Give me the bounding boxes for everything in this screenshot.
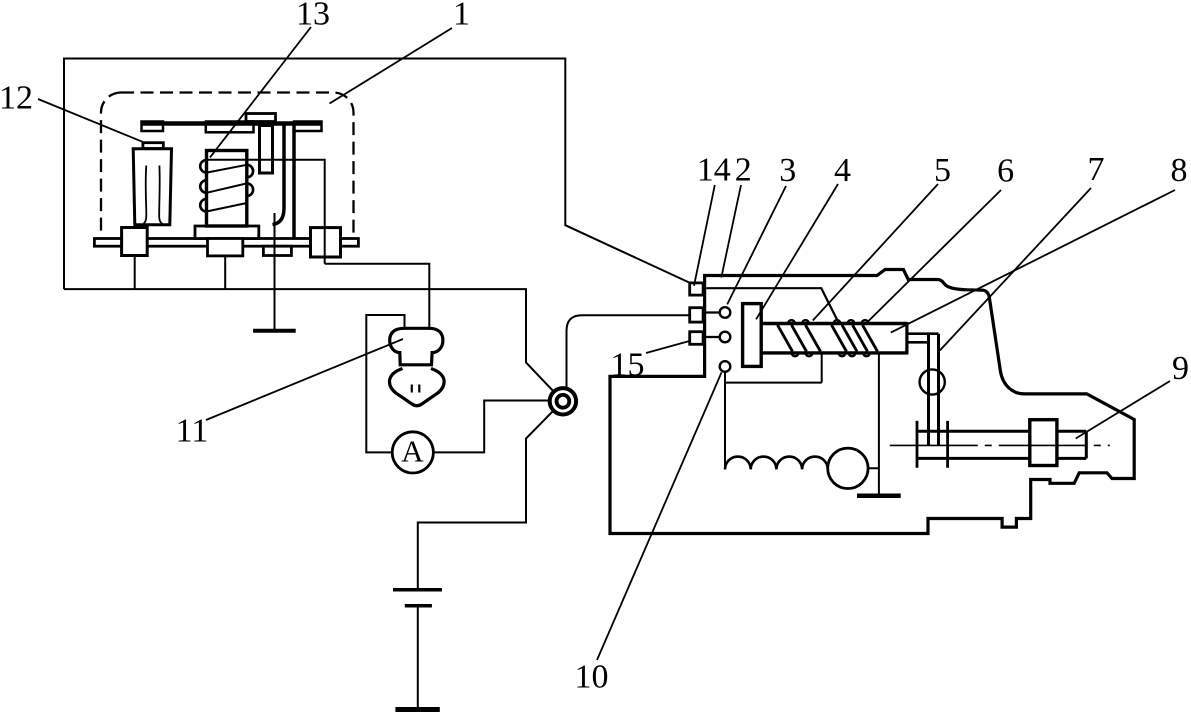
svg-text:3: 3	[779, 152, 796, 189]
spring top loops	[788, 320, 868, 323]
relay base plate	[94, 239, 358, 247]
leader line 1	[330, 28, 453, 104]
wire: bottom bus from relay pins to node	[64, 289, 554, 392]
leader line 12	[38, 99, 143, 142]
shift lever 8	[929, 334, 939, 446]
plunger rod top	[762, 322, 907, 325]
wire: ammeter to node	[433, 401, 550, 453]
relay ground wire	[274, 213, 276, 329]
contact (middle)	[720, 332, 731, 343]
base right mounting tab	[311, 228, 341, 257]
leader line 7	[940, 188, 1091, 351]
wire: node to terminal 2	[567, 315, 690, 389]
terminal stubs	[703, 313, 720, 338]
collar plates	[917, 421, 948, 468]
svg-text:A: A	[401, 434, 424, 469]
svg-text:6: 6	[997, 153, 1014, 190]
svg-text:12: 12	[0, 80, 33, 117]
lever pivot	[920, 369, 945, 394]
drive shaft	[917, 431, 1030, 458]
coil turns left loops	[200, 160, 206, 212]
base center block	[208, 239, 243, 256]
terminal 15	[690, 332, 703, 345]
battery plates	[393, 588, 442, 592]
yoke top tab	[246, 114, 276, 122]
ignition switch 11 cap	[390, 328, 443, 365]
relay ground symbol	[253, 329, 296, 333]
leader line 8	[891, 190, 1175, 333]
leader line 3	[727, 186, 786, 304]
base left mounting tab	[122, 228, 148, 256]
wire: relay coil to switch 11 (lower run)	[325, 264, 430, 329]
motor ground bar	[857, 494, 901, 499]
contact plate 4	[743, 304, 762, 367]
svg-text:4: 4	[834, 152, 851, 189]
nut block 9	[1030, 420, 1057, 466]
leader line 6	[866, 190, 1001, 324]
yoke middle lip	[206, 122, 254, 133]
wire: switch 11 left lead to ammeter	[366, 315, 404, 452]
svg-text:14: 14	[697, 152, 731, 189]
return spring 5 strokes	[778, 325, 878, 352]
wire: contact 10 down	[724, 372, 726, 470]
contact pillar 12 body	[133, 149, 171, 225]
link 7 connector	[907, 334, 939, 343]
leader line 13	[210, 27, 311, 157]
svg-text:5: 5	[934, 152, 951, 189]
svg-text:13: 13	[296, 0, 330, 33]
terminal 14	[690, 283, 703, 295]
battery to ground wire	[417, 606, 419, 708]
motor lead to ground	[868, 352, 879, 494]
armature 13 stem	[273, 126, 285, 225]
spring bottom loops	[792, 353, 870, 356]
coil turns right loops	[247, 165, 253, 196]
relay cover 1 (dashed enclosure)	[101, 93, 354, 238]
svg-text:10: 10	[575, 659, 609, 696]
leader line 15	[646, 341, 690, 353]
contact 3	[720, 307, 731, 318]
svg-text:11: 11	[176, 413, 209, 450]
field coil winding	[725, 457, 828, 470]
ammeter A	[392, 432, 433, 473]
plunger rod bottom	[762, 351, 907, 354]
relay pin wire center	[224, 256, 226, 289]
yoke left lip	[142, 122, 164, 132]
motor brush circle	[828, 448, 868, 488]
contact 10	[720, 361, 731, 372]
leader line 5	[813, 184, 938, 321]
coil bobbin flange	[195, 226, 259, 239]
wire: battery+ loop around relay to terminal 14	[64, 59, 690, 290]
leader line 2	[721, 185, 741, 278]
svg-text:9: 9	[1172, 350, 1189, 387]
coil turns across bobbin	[207, 165, 247, 212]
battery ground bar	[395, 707, 439, 712]
wire: solenoid winding to rod	[725, 353, 822, 383]
leader line 9	[1076, 381, 1170, 439]
switch 11 tick marks	[412, 385, 420, 393]
svg-text:8: 8	[1171, 152, 1188, 189]
terminal 2 (battery)	[690, 308, 703, 322]
leader line 10	[597, 373, 722, 661]
svg-text:7: 7	[1088, 151, 1105, 188]
starter housing outline	[610, 270, 1134, 534]
relay coil 13 bobbin	[207, 151, 247, 227]
junction node	[550, 388, 576, 414]
wire: relay coil upper run across bobbin	[207, 160, 325, 264]
fixed contact stem	[260, 126, 273, 174]
base second tab	[263, 246, 291, 255]
svg-text:2: 2	[735, 152, 752, 189]
relay pin wire left	[134, 256, 136, 290]
ignition switch 11 body	[389, 369, 444, 406]
housing inner contour	[706, 288, 839, 323]
plunger 6 end face	[905, 322, 908, 355]
contact pillar 12 inner seams	[144, 166, 147, 224]
shaft centerline	[890, 444, 1110, 446]
bolt 9	[1057, 431, 1086, 458]
leader line 14	[694, 185, 715, 286]
leader line 11	[206, 339, 403, 420]
relay yoke bar	[142, 121, 322, 126]
svg-text:15: 15	[611, 347, 645, 384]
wire: node to battery	[418, 410, 554, 588]
yoke right lip	[294, 122, 322, 132]
contact pillar 12 cap	[143, 143, 163, 149]
leader line 4	[756, 184, 838, 319]
svg-text:1: 1	[453, 0, 470, 33]
